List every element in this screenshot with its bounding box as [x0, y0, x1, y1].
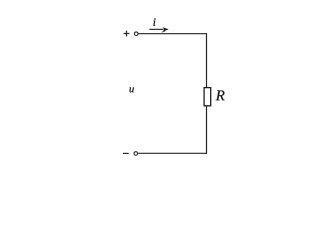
label R (resistance) — [216, 90, 225, 100]
wire (bottom horizontal, corner to terminal) — [138, 152, 207, 154]
resistor R — [204, 88, 211, 106]
label i (current) — [153, 21, 155, 26]
node - (negative terminal polarity mark) — [123, 152, 129, 154]
node + (positive terminal polarity mark) — [124, 31, 130, 37]
wire (top horizontal, terminal to corner) — [138, 33, 207, 35]
current reference arrow — [149, 27, 168, 32]
wire (right vertical, corner to resistor top) — [206, 33, 208, 87]
wire (right vertical, resistor bottom to corner) — [206, 106, 208, 154]
terminal T1 (top input terminal) — [134, 32, 138, 36]
terminal T2 (bottom input terminal) — [134, 152, 138, 156]
label u (voltage) — [130, 87, 134, 92]
